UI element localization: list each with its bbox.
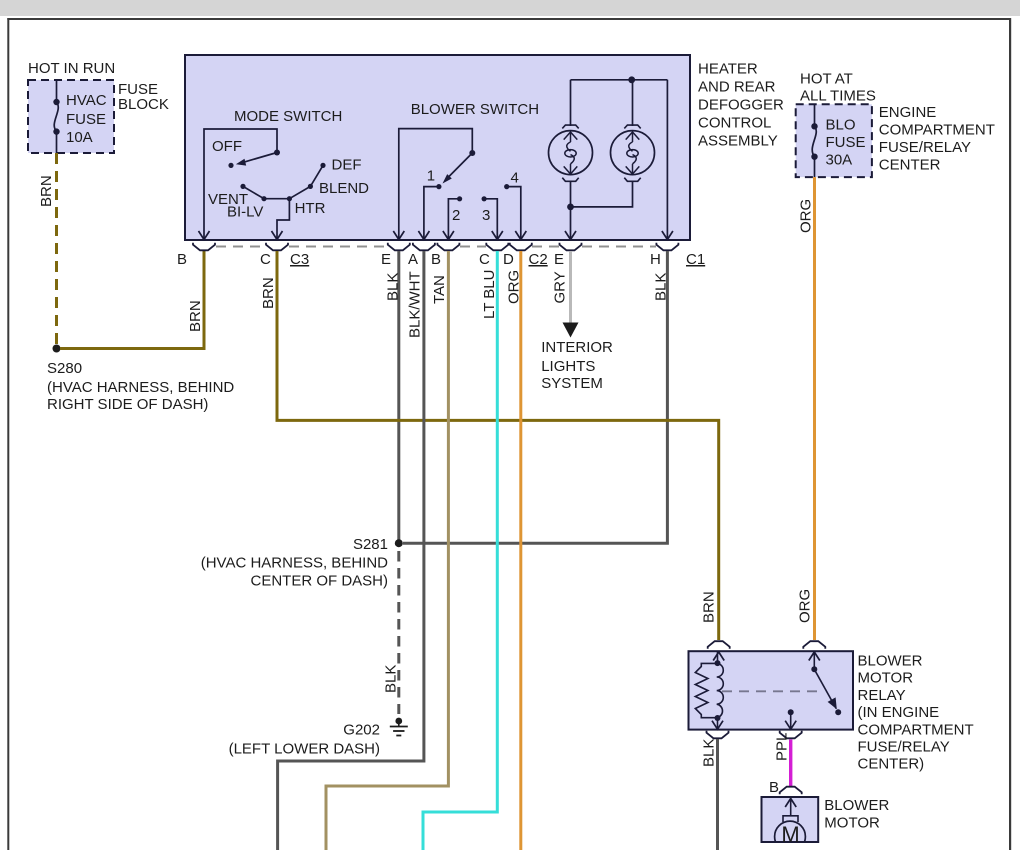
svg-text:BLO: BLO xyxy=(826,117,856,134)
svg-text:BLEND: BLEND xyxy=(319,180,369,197)
mode switch VENT contact xyxy=(208,184,248,208)
svg-text:C2: C2 xyxy=(529,251,548,268)
svg-text:C1: C1 xyxy=(686,251,705,268)
arrow to interior lights system xyxy=(563,323,579,338)
connector cup pin C2pin xyxy=(486,243,508,251)
wire label BLK (pin H) xyxy=(653,273,670,301)
wire label PPL xyxy=(774,733,791,761)
svg-text:SYSTEM: SYSTEM xyxy=(541,375,603,392)
node relay coil bottom xyxy=(715,715,721,721)
svg-text:BLOCK: BLOCK xyxy=(118,96,169,113)
pin label E2 xyxy=(554,251,564,268)
svg-text:S281: S281 xyxy=(353,536,388,553)
relay mechanical link dashed xyxy=(722,690,823,692)
blower switch contact 3 and wire to pin C xyxy=(482,196,498,239)
wire label ORG (pin D) xyxy=(506,270,523,304)
svg-text:RIGHT SIDE OF DASH): RIGHT SIDE OF DASH) xyxy=(47,396,208,413)
svg-text:BRN: BRN xyxy=(38,175,55,207)
svg-text:ORG: ORG xyxy=(506,270,523,304)
svg-text:ORG: ORG xyxy=(798,199,815,233)
wire ORG from BLO fuse to relay xyxy=(813,177,816,640)
svg-text:BLK: BLK xyxy=(701,739,718,767)
relay coil L1 arcs xyxy=(717,663,724,717)
svg-text:S280: S280 xyxy=(47,360,82,377)
connector dashed line D-E2 section xyxy=(532,246,559,248)
svg-text:ASSEMBLY: ASSEMBLY xyxy=(698,133,778,150)
svg-text:C: C xyxy=(479,251,490,268)
pin label C2pin xyxy=(479,251,490,268)
connector dashed line C3 section xyxy=(216,246,265,248)
wire label GRY xyxy=(552,271,569,303)
wire label LT BLU xyxy=(481,270,498,319)
connector cup relay ORG input xyxy=(803,641,825,649)
label HOT IN RUN xyxy=(28,60,115,77)
svg-text:BLK/WHT: BLK/WHT xyxy=(407,271,424,338)
connector cup pin E xyxy=(388,243,410,251)
svg-text:MOTOR: MOTOR xyxy=(858,670,914,687)
wire lamps to pin E bottom xyxy=(571,181,633,240)
svg-text:30A: 30A xyxy=(826,152,853,169)
svg-text:ALL TIMES: ALL TIMES xyxy=(800,88,876,105)
motor M1 letter M xyxy=(781,822,799,847)
node relay switch blade end xyxy=(835,709,841,715)
label BLOWER MOTOR xyxy=(824,797,889,832)
svg-text:COMPARTMENT: COMPARTMENT xyxy=(858,721,974,738)
wire label ORG (relay input) xyxy=(797,589,814,623)
svg-text:BLOWER: BLOWER xyxy=(858,653,923,670)
svg-text:BRN: BRN xyxy=(701,591,718,623)
node relay switch common xyxy=(811,666,817,672)
svg-text:AND REAR: AND REAR xyxy=(698,79,776,96)
svg-text:INTERIOR: INTERIOR xyxy=(541,339,613,356)
connector cup pin D xyxy=(510,243,532,251)
connector label C3 xyxy=(290,251,309,268)
wire label BLK (relay output) xyxy=(701,739,718,767)
value label HVAC FUSE 10A xyxy=(66,92,107,146)
pin E2 arrow xyxy=(565,231,576,240)
pin B arrow xyxy=(199,231,210,240)
wire BLK/WHT from pin A to page bottom xyxy=(278,251,424,850)
pin label B (blower motor) xyxy=(769,779,779,796)
svg-text:ENGINE: ENGINE xyxy=(879,104,937,121)
svg-text:OFF: OFF xyxy=(212,138,242,155)
node S281 splice dot xyxy=(395,539,403,547)
pin label D xyxy=(503,251,514,268)
svg-text:FUSE: FUSE xyxy=(826,134,866,151)
blower switch contact 4 and wire to pin D xyxy=(504,170,521,240)
svg-text:H: H xyxy=(650,251,661,268)
label MODE SWITCH xyxy=(234,108,342,125)
fuse block box (HVAC fuse) xyxy=(28,80,114,153)
relay switch blade xyxy=(814,669,837,709)
blower switch feed wire to pin E xyxy=(399,129,476,239)
svg-text:HVAC: HVAC xyxy=(66,92,107,109)
mode switch OFF contact xyxy=(212,138,242,168)
svg-text:TAN: TAN xyxy=(431,275,448,304)
pin B2 arrow xyxy=(443,231,454,240)
wire BRN dashed from HVAC fuse to S280 xyxy=(55,153,58,345)
connector cup relay BLK output xyxy=(707,731,729,739)
mode switch feed wire to pin B xyxy=(204,129,280,239)
pin C arrow xyxy=(272,231,283,240)
pin label A xyxy=(408,251,418,268)
pin label E xyxy=(381,251,391,268)
pin label B2 xyxy=(431,251,441,268)
label BLOWER SWITCH xyxy=(411,101,539,118)
svg-text:BLOWER SWITCH: BLOWER SWITCH xyxy=(411,101,539,118)
svg-text:BRN: BRN xyxy=(187,300,204,332)
mode switch BLEND contact xyxy=(308,180,369,197)
svg-text:(HVAC HARNESS, BEHIND: (HVAC HARNESS, BEHIND xyxy=(201,555,388,572)
motor M1 armature circle xyxy=(775,821,806,850)
connector cup relay PPL output xyxy=(780,731,802,739)
wire BLK from pin H down and left to S281 xyxy=(403,251,667,543)
connector cup relay BRN input xyxy=(708,641,730,649)
connector dashed line C3 to C2 section xyxy=(289,246,387,248)
svg-text:GRY: GRY xyxy=(552,271,569,303)
blower switch contact 1 and wire to pin A xyxy=(424,168,442,240)
svg-text:BLOWER: BLOWER xyxy=(824,797,889,814)
svg-text:1: 1 xyxy=(427,168,435,185)
svg-text:FUSE/RELAY: FUSE/RELAY xyxy=(879,139,971,156)
svg-text:2: 2 xyxy=(452,207,460,224)
blower switch wiper arrow xyxy=(443,153,473,184)
svg-text:BI-LV: BI-LV xyxy=(227,204,263,221)
svg-text:B: B xyxy=(769,779,779,796)
svg-text:E: E xyxy=(381,251,391,268)
fuse F2 BLO FUSE 30A element xyxy=(811,104,817,177)
motor M1 brush bracket xyxy=(783,816,798,822)
pin label B xyxy=(177,251,187,268)
blower motor input arrow xyxy=(785,797,796,816)
svg-text:DEF: DEF xyxy=(332,156,362,173)
wire label BRN (pin B) xyxy=(187,300,204,332)
connector label C1 xyxy=(686,251,705,268)
page border frame left xyxy=(7,18,9,850)
svg-text:G202: G202 xyxy=(343,722,380,739)
fuse F1 HVAC FUSE 10A element xyxy=(53,80,59,153)
engine compartment fuse/relay center box (BLO fuse) xyxy=(796,104,872,177)
wire PPL from relay to blower motor xyxy=(789,740,792,787)
wire lamp top feed to pin H xyxy=(666,80,668,239)
label INTERIOR LIGHTS SYSTEM xyxy=(541,339,613,392)
wire BRN from S280 to assembly pin B xyxy=(60,251,204,349)
svg-text:LIGHTS: LIGHTS xyxy=(541,358,595,375)
page border frame top xyxy=(7,18,1011,20)
svg-text:ORG: ORG xyxy=(797,589,814,623)
svg-text:HEATER: HEATER xyxy=(698,61,758,78)
wire ORG from pin D to page bottom xyxy=(519,251,522,850)
relay coil input arrow xyxy=(713,651,724,663)
connector cup pin B2 xyxy=(437,243,459,251)
page border frame right xyxy=(1009,18,1011,850)
svg-text:(LEFT LOWER DASH): (LEFT LOWER DASH) xyxy=(229,741,380,758)
svg-text:DEFOGGER: DEFOGGER xyxy=(698,97,784,114)
svg-text:10A: 10A xyxy=(66,129,93,146)
label S280 (HVAC HARNESS, BEHIND RIGHT SIDE OF DASH) xyxy=(47,360,234,413)
node relay NO contact xyxy=(788,709,794,715)
svg-text:HOT AT: HOT AT xyxy=(800,71,853,88)
svg-text:3: 3 xyxy=(482,207,490,224)
svg-text:LT BLU: LT BLU xyxy=(481,270,498,319)
pin label C xyxy=(260,251,271,268)
value label BLO FUSE 30A xyxy=(826,117,866,169)
svg-text:B: B xyxy=(177,251,187,268)
svg-text:CENTER: CENTER xyxy=(879,157,941,174)
wire label BRN (pin C) xyxy=(260,277,277,309)
svg-text:B: B xyxy=(431,251,441,268)
wire label BRN (fuse drop) xyxy=(38,175,55,207)
wire BLK from relay to page bottom xyxy=(716,739,719,850)
label HEATER AND REAR DEFOGGER CONTROL ASSEMBLY xyxy=(698,61,784,150)
pin label H xyxy=(650,251,661,268)
svg-text:CONTROL: CONTROL xyxy=(698,115,771,132)
connector label C2 xyxy=(529,251,548,268)
mode switch BI-LV contact xyxy=(227,196,267,221)
mode switch output wire to pin C xyxy=(277,199,289,239)
svg-text:M: M xyxy=(781,822,799,847)
top gray band xyxy=(0,0,1020,16)
wire label BLK (ground drop) xyxy=(383,665,400,693)
svg-text:COMPARTMENT: COMPARTMENT xyxy=(879,122,995,139)
svg-text:C3: C3 xyxy=(290,251,309,268)
connector cup pin A xyxy=(413,243,435,251)
connector cup pin E2 xyxy=(560,243,582,251)
wire BRN from pin C to blower motor relay xyxy=(277,251,719,640)
wire BLK dashed from S281 to G202 xyxy=(397,551,400,714)
node S280 splice dot xyxy=(53,345,61,353)
node lamp top junction xyxy=(628,76,635,83)
node relay coil top xyxy=(715,660,721,666)
connector dashed line B2-C2 section xyxy=(460,246,486,248)
svg-text:RELAY: RELAY xyxy=(858,687,906,704)
svg-text:4: 4 xyxy=(511,170,519,187)
svg-text:CENTER): CENTER) xyxy=(858,756,925,773)
connector cup pin H xyxy=(656,243,678,251)
relay coil output wire and arrow xyxy=(712,718,723,730)
connector dashed line E2-H section xyxy=(582,246,656,248)
mode switch DEF contact xyxy=(320,156,361,173)
label ENGINE COMPARTMENT FUSE/RELAY CENTER xyxy=(879,104,995,174)
svg-text:FUSE/RELAY: FUSE/RELAY xyxy=(858,739,950,756)
svg-text:BLK: BLK xyxy=(653,273,670,301)
mode switch HTR contact junction xyxy=(287,196,326,217)
wire label BRN (relay input) xyxy=(701,591,718,623)
connector cup pin B xyxy=(193,243,215,251)
svg-text:(IN ENGINE: (IN ENGINE xyxy=(858,704,940,721)
pin C2pin arrow xyxy=(492,231,503,240)
label HOT AT ALL TIMES xyxy=(800,71,876,105)
lamp feed top wire xyxy=(571,79,668,81)
svg-text:C: C xyxy=(260,251,271,268)
wire label TAN xyxy=(431,275,448,304)
resistor (relay coil shunt) zigzag xyxy=(695,663,716,717)
blower motor box xyxy=(762,797,819,842)
illumination lamp 2 xyxy=(611,125,655,181)
label G202 (LEFT LOWER DASH) xyxy=(229,722,380,758)
wire TAN from pin B2 to page bottom xyxy=(326,251,448,850)
pin D arrow xyxy=(515,231,526,240)
svg-text:CENTER OF DASH): CENTER OF DASH) xyxy=(250,573,388,590)
mode switch wiper arrow xyxy=(236,153,277,166)
svg-text:BLK: BLK xyxy=(383,665,400,693)
connector cup blower motor input xyxy=(780,787,802,795)
svg-text:A: A xyxy=(408,251,418,268)
wire GRY from pin E2 to interior lights xyxy=(569,251,572,323)
svg-text:PPL: PPL xyxy=(774,733,791,761)
mode switch contact chain wire xyxy=(243,165,323,198)
svg-text:D: D xyxy=(503,251,514,268)
svg-text:HTR: HTR xyxy=(295,200,326,217)
node lamp bottom junction xyxy=(567,204,574,211)
pin E arrow xyxy=(393,231,404,240)
relay output wire and arrow xyxy=(785,712,796,729)
wire label ORG (fuse drop) xyxy=(798,199,815,233)
wire BLK from pin E to S281 xyxy=(397,251,400,543)
svg-text:HOT IN RUN: HOT IN RUN xyxy=(28,60,115,77)
wire label BLK/WHT xyxy=(407,271,424,338)
blower motor relay box xyxy=(689,651,854,729)
connector cup pin C xyxy=(266,243,288,251)
wire label BLK (pin E) xyxy=(385,273,402,301)
pin A arrow xyxy=(418,231,429,240)
svg-text:MODE SWITCH: MODE SWITCH xyxy=(234,108,342,125)
illumination lamp 1 xyxy=(549,125,593,181)
label FUSE BLOCK xyxy=(118,81,169,113)
wire LT BLU from pin C2pin to page bottom xyxy=(423,251,497,850)
svg-text:(HVAC HARNESS, BEHIND: (HVAC HARNESS, BEHIND xyxy=(47,379,234,396)
svg-text:E: E xyxy=(554,251,564,268)
label BLOWER MOTOR RELAY (IN ENGINE COMPARTMENT FUSE/RELAY CENTER) xyxy=(858,653,974,773)
svg-text:BLK: BLK xyxy=(385,273,402,301)
relay switch common arrow xyxy=(809,651,820,669)
heater and rear defogger control assembly box xyxy=(185,55,690,240)
wire left lamp drop xyxy=(570,80,572,126)
blower switch contact 2 and wire to pin B xyxy=(448,196,462,239)
wire right lamp drop xyxy=(632,80,634,126)
pin H arrow xyxy=(662,231,673,240)
svg-text:BRN: BRN xyxy=(260,277,277,309)
label S281 (HVAC HARNESS, BEHIND CENTER OF DASH) xyxy=(201,536,388,590)
svg-text:FUSE: FUSE xyxy=(66,111,106,128)
svg-text:MOTOR: MOTOR xyxy=(824,815,880,832)
ground G202 symbol xyxy=(390,718,408,736)
